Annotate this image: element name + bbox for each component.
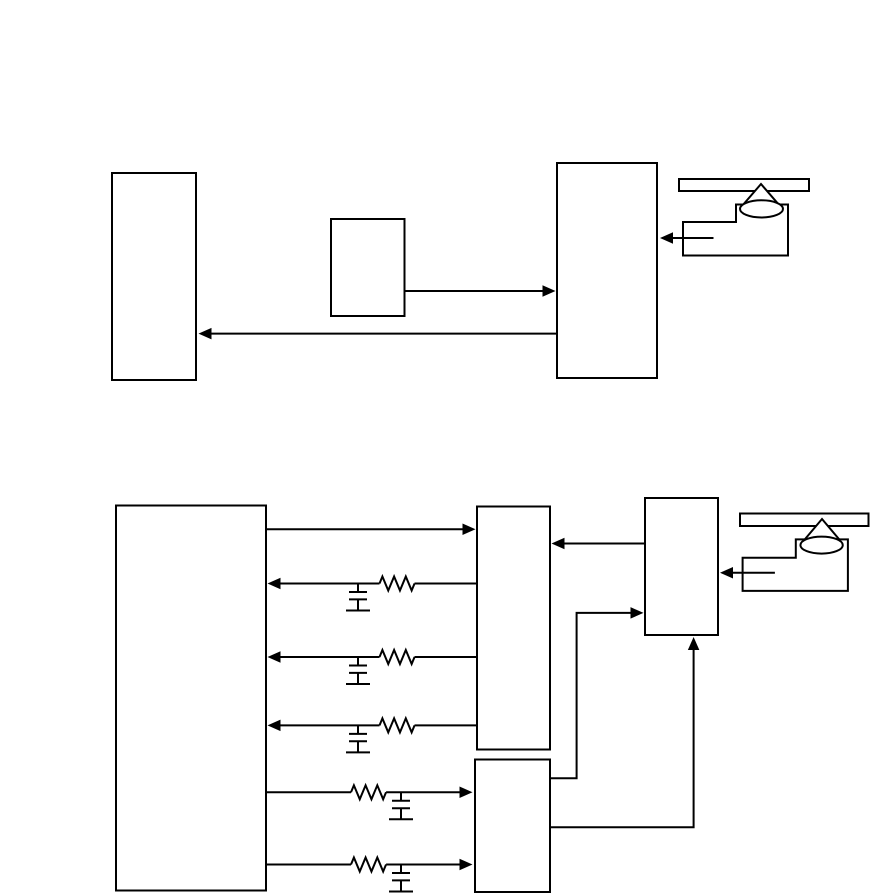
capacitor C2	[357, 657, 359, 666]
resistor R5	[351, 858, 386, 872]
sensor S2: body	[743, 539, 848, 591]
resistor R4	[351, 785, 386, 799]
ground (C5)	[400, 880, 402, 891]
block U3 (top-right unit)	[557, 163, 657, 378]
capacitor C5	[400, 865, 402, 874]
wire: U4 to U6 (RC line 5)	[266, 864, 351, 866]
sensor S2: cone	[803, 519, 841, 542]
block U2 (top-middle unit)	[331, 219, 405, 316]
sensor S2: lens ellipse	[800, 537, 842, 554]
wire: S1 output to U3	[673, 237, 714, 239]
block U5 (bottom-middle upper unit)	[477, 507, 550, 750]
wire: U6 to U7 left input	[550, 613, 631, 778]
block U4 (bottom-left large unit)	[116, 506, 266, 891]
wire: U6 to U7 bottom input	[550, 650, 694, 827]
sensor S1: cone	[742, 184, 780, 206]
sensor S2: mounting bar	[740, 514, 869, 527]
wire: U3 output to U1 input	[212, 333, 558, 335]
ground (C3)	[357, 741, 359, 752]
sensor S1: body	[683, 205, 788, 256]
sensor S1: lens ellipse	[740, 200, 783, 217]
wire: U5 to U4 (RC line 3)	[415, 724, 478, 726]
wire: S2 output to U7	[733, 572, 775, 574]
capacitor C4	[400, 792, 402, 801]
resistor R1	[380, 577, 415, 591]
block U1 (top-left unit)	[112, 173, 196, 380]
wire: U4 output to U5 input	[266, 528, 463, 530]
resistor R2	[380, 650, 415, 664]
wire: U4 to U6 (RC line 4)	[266, 791, 351, 793]
sensor S1: mounting bar	[679, 179, 809, 191]
ground (C4)	[400, 808, 402, 819]
block U7 (bottom-right unit)	[645, 498, 718, 635]
wire: U5 to U4 (RC line 2)	[415, 656, 478, 658]
wire: U5 to U4 (RC line 1)	[415, 583, 478, 585]
block U6 (bottom-middle lower unit)	[475, 760, 550, 893]
wire: U2 output to U3 input	[405, 290, 543, 292]
resistor R3	[380, 718, 415, 732]
capacitor C1	[357, 584, 359, 593]
wire: U7 output to U5 input	[564, 543, 645, 545]
ground (C2)	[357, 673, 359, 684]
capacitor C3	[357, 725, 359, 734]
ground (C1)	[357, 599, 359, 610]
